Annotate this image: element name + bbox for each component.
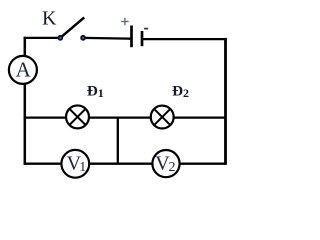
svg-text:Đ2: Đ2	[172, 84, 189, 101]
wire: top-left horizontal (corner to switch left contact)	[24, 37, 61, 39]
wire: middle vertical junction (between lamps down to between voltmeters)	[117, 118, 119, 164]
lamp D1 (circle with X)	[66, 105, 89, 128]
wire: battery - plate to top-right corner	[142, 38, 227, 40]
ammeter A1	[9, 56, 37, 84]
battery - label	[144, 28, 148, 30]
wire: bottom row horizontal rail (voltmeter row)	[24, 162, 226, 164]
wire: right side vertical (top-right corner down to bottom rail)	[224, 38, 227, 165]
svg-text:A: A	[16, 58, 32, 82]
wire: lamp row horizontal rail	[24, 116, 226, 118]
switch K blade	[60, 17, 84, 37]
svg-text:Đ1: Đ1	[87, 83, 104, 100]
svg-text:K: K	[42, 8, 57, 30]
voltmeter V2	[152, 150, 179, 177]
lamp D2 (circle with X)	[151, 106, 174, 129]
voltmeter V1	[61, 150, 89, 178]
battery negative plate (short)	[141, 31, 144, 46]
battery positive plate (long)	[130, 26, 133, 48]
switch contact dot (left)	[57, 35, 63, 41]
wire: left side vertical (top corner down to bottom rail)	[24, 37, 27, 165]
battery + label	[121, 18, 128, 25]
switch contact dot (right)	[80, 35, 86, 41]
wire: switch right contact to battery + plate	[83, 37, 131, 40]
